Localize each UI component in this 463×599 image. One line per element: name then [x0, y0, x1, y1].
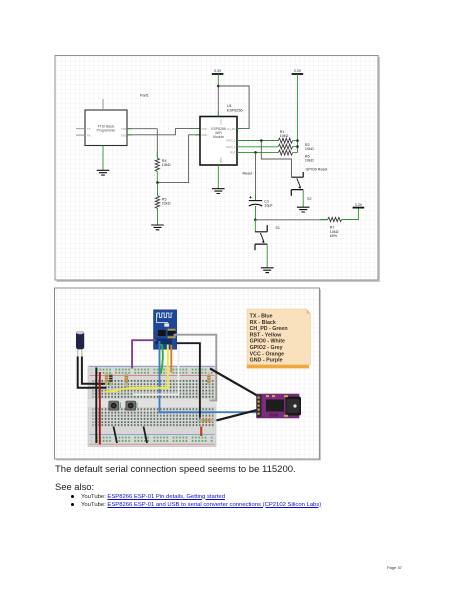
wire RST to R6	[237, 151, 278, 153]
wire GPIO0 white	[133, 343, 179, 395]
breadboard top red rail line	[90, 374, 215, 376]
resistor R4	[156, 152, 158, 159]
node RST branch	[254, 151, 257, 154]
resistor bb4 (right, vertical)	[207, 372, 210, 388]
wire GPIO2 grey	[175, 335, 217, 401]
svg-text:22kΩ: 22kΩ	[162, 202, 171, 206]
svg-text:TX - Blue: TX - Blue	[250, 314, 273, 320]
svg-text:3.3V: 3.3V	[214, 69, 222, 73]
ESP-01 module (blue PCB)	[154, 310, 177, 350]
breadboard bottom blue rail line	[90, 433, 215, 435]
breadboard hole rows	[92, 369, 214, 442]
wire capacitor leg 2 (black)	[82, 357, 113, 384]
node GPIO_0 branch	[260, 139, 263, 142]
wire FTDI RXD to ESP TXD	[127, 129, 200, 135]
USB-serial adapter (CP2102, purple)	[257, 394, 302, 418]
ground under S1	[261, 268, 274, 273]
ESP bottom pin to ground	[217, 165, 219, 189]
svg-text:TXD: TXD	[202, 127, 207, 131]
svg-text:GND: GND	[121, 133, 127, 137]
node C1/S1/R7 junction	[254, 219, 257, 222]
wire 3.3V to CH_PD	[218, 86, 249, 129]
svg-text:GND: GND	[219, 158, 223, 164]
capacitor C1	[249, 196, 274, 208]
svg-text:GPIO0 Reset: GPIO0 Reset	[306, 168, 328, 172]
ground under ESP	[212, 189, 225, 194]
wire FTDI TXD to R4	[127, 129, 157, 158]
svg-text:RX - Black: RX - Black	[250, 320, 276, 326]
wire GPIO_0 to R1	[237, 140, 278, 142]
wire short red jumper bottom	[200, 427, 202, 437]
node 3.3V/CH_PD junction	[217, 85, 220, 88]
resistor R7	[328, 217, 342, 221]
svg-text:VCC: VCC	[219, 120, 223, 126]
capacitor (electrolytic, off-board)	[76, 331, 84, 357]
resistor bb5 (horizontal bottom)	[197, 419, 217, 422]
svg-text:3.3V: 3.3V	[294, 69, 302, 73]
wire GPIO_0 to switch S2	[261, 141, 291, 177]
svg-text:3.3V: 3.3V	[355, 203, 363, 207]
svg-text:ESP8266: ESP8266	[227, 108, 243, 112]
svg-text:GND: GND	[202, 133, 208, 137]
wire ESP GND to R4 bottom node	[158, 135, 200, 183]
FTDI left pins	[76, 129, 85, 135]
svg-text:GPIO0 - White: GPIO0 - White	[250, 339, 285, 345]
wire black bottom to USB adapter	[217, 409, 264, 421]
resistor R2	[278, 144, 292, 149]
FTDI bottom pin to ground	[102, 146, 104, 171]
sticky note legend	[247, 309, 311, 368]
IC U1 ESP8266 WiFi Module	[200, 104, 243, 165]
FTDI top pin wire	[102, 99, 104, 110]
wire red vertical rail jumper	[99, 372, 101, 445]
svg-text:Part1: Part1	[140, 94, 149, 98]
ground under R5	[151, 225, 164, 230]
wire GPIO_2 to R2	[237, 146, 278, 148]
svg-text:Module: Module	[213, 135, 224, 139]
wire black angled jumper bottom-left 2	[144, 427, 148, 444]
wire capacitor leg 1 (black)	[78, 357, 107, 388]
svg-text:10kΩ: 10kΩ	[280, 134, 289, 138]
switch S1	[255, 220, 280, 268]
breadboard body	[88, 366, 216, 447]
resistor R5	[157, 183, 159, 196]
breadboard top blue rail line	[90, 366, 215, 368]
svg-text:RST - Yellow: RST - Yellow	[250, 332, 283, 338]
node R2 right	[296, 145, 299, 148]
svg-text:10µF: 10µF	[264, 204, 273, 208]
resistor bb1	[105, 373, 108, 387]
svg-text:S1: S1	[275, 226, 280, 230]
wire R7 to 3.3V	[342, 208, 359, 219]
wire black vertical rail jumper	[95, 368, 97, 444]
svg-text:GND - Purple: GND - Purple	[250, 358, 283, 364]
node R1 right	[296, 139, 299, 142]
svg-text:10kΩ: 10kΩ	[305, 159, 314, 163]
resistor bb2	[109, 373, 112, 387]
svg-text:RST: RST	[230, 151, 236, 155]
wire RST down to C1	[255, 152, 257, 199]
svg-text:GPIO_0: GPIO_0	[226, 139, 236, 143]
svg-text:k5%: k5%	[330, 234, 338, 238]
ground under FTDI	[97, 170, 110, 175]
svg-text:10kΩ: 10kΩ	[305, 147, 314, 151]
pushbutton S2 (bb)	[126, 401, 136, 410]
svg-text:VCC - Orange: VCC - Orange	[250, 351, 284, 357]
wire black diagonal to USB adapter	[210, 369, 258, 397]
wire node to R7	[255, 219, 327, 221]
wire TX blue	[160, 341, 268, 412]
svg-text:Programmer: Programmer	[97, 129, 117, 133]
svg-text:10kΩ: 10kΩ	[162, 163, 171, 167]
svg-text:TXD: TXD	[121, 127, 126, 131]
resistor R1	[278, 138, 292, 143]
pushbutton S1 (bb)	[109, 401, 119, 410]
ground under S2	[297, 207, 310, 212]
breadboard bottom red rail line	[90, 443, 215, 445]
wire GND purple	[132, 340, 156, 368]
resistor R6	[278, 150, 292, 155]
svg-text:GPIO_2: GPIO_2	[226, 145, 236, 149]
svg-text:S2: S2	[307, 197, 312, 201]
switch S2	[291, 172, 311, 207]
part FTDI Basic Programmer	[85, 110, 127, 146]
breadboard figure frame	[55, 288, 320, 459]
svg-text:CH_PD: CH_PD	[227, 127, 236, 131]
wire RX black (module to breadboard)	[177, 343, 200, 418]
resistor bb3	[125, 373, 128, 388]
svg-text:GPIO2 - Grey: GPIO2 - Grey	[250, 345, 283, 351]
pushbutton leg stubs	[120, 403, 137, 409]
svg-text:RX: RX	[87, 133, 91, 137]
wire VCC orange	[170, 345, 172, 373]
wire CH_PD green	[161, 344, 163, 374]
wire black angled jumper bottom-left 1	[114, 427, 118, 444]
svg-text:CH_PD - Green: CH_PD - Green	[250, 326, 288, 332]
wire RST yellow	[105, 345, 168, 392]
svg-text:Reset: Reset	[243, 172, 253, 176]
schematic frame	[55, 56, 378, 281]
node R4/R5/GND junction	[156, 181, 159, 184]
svg-text:TX: TX	[87, 127, 91, 131]
